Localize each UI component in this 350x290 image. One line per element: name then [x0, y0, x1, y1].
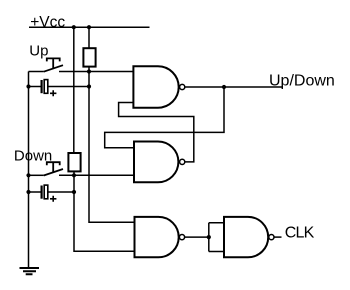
pushbutton S2 (Down) actuator — [47, 162, 60, 172]
wire feedback U1B output to U1A input B — [119, 103, 194, 162]
junction dot: rail to R2 branch — [72, 25, 76, 29]
svg-text:Up: Up — [29, 43, 48, 60]
NAND gate U1B body — [134, 142, 178, 183]
label CLK — [285, 224, 315, 241]
capacitor C2 right lead to Down node — [48, 191, 74, 193]
capacitor C2 left lead — [29, 191, 41, 193]
wire R1 bottom down through Up node, continues to lower gate input corner — [89, 67, 135, 223]
junction dot: C1 left at ground column — [26, 84, 30, 88]
wire Vcc rail down to R2 top — [73, 27, 75, 153]
svg-text:+Vcc: +Vcc — [30, 14, 65, 31]
wire U1C output to U1D inputs — [185, 223, 224, 252]
wire R2 bottom down, continues to lower gate U1C input corner — [74, 171, 135, 251]
capacitor C2 plus sign — [50, 196, 56, 202]
wire U1D output CLK stub — [274, 236, 282, 238]
NAND gate U1D output bubble — [269, 235, 274, 240]
junction dot: Down node at R2 — [72, 173, 76, 177]
capacitor C1 negative plate — [40, 80, 42, 93]
wire Up switch left lead — [29, 71, 44, 73]
wire U1A output to Up/Down — [185, 86, 283, 88]
capacitor C1 right lead to Up node — [48, 86, 89, 88]
NAND gate U1A output bubble — [180, 84, 185, 89]
ground symbol — [20, 268, 40, 274]
resistor R2 — [68, 153, 80, 171]
label Up — [29, 43, 48, 60]
junction dot: C2 right at Down node — [72, 190, 76, 194]
pushbutton S1 (Up) actuator — [47, 58, 60, 68]
pushbutton S2 lever — [44, 169, 63, 176]
junction dot: U1A output feedback tap — [222, 85, 226, 89]
wire Down switch left lead — [29, 174, 44, 176]
capacitor C2 positive plate — [44, 185, 48, 199]
pushbutton S1 lever — [44, 65, 63, 72]
NAND gate U1C output bubble — [179, 235, 184, 240]
svg-text:CLK: CLK — [285, 224, 315, 241]
NAND gate U1C body — [135, 217, 179, 257]
junction dot: rail to R1 branch — [87, 25, 91, 29]
capacitor C1 plus sign — [50, 90, 56, 96]
label +Vcc — [30, 14, 65, 31]
resistor R1 — [83, 48, 95, 66]
wire Down switch right lead to node and gate U1B input B — [59, 174, 134, 176]
wire Vcc rail down to R1 top — [88, 27, 90, 48]
junction dot: C2 left at ground column — [26, 190, 30, 194]
NAND gate U1D body — [224, 217, 268, 257]
NAND gate U1B output bubble — [180, 159, 185, 164]
wire Up switch right lead to node and gate U1A input A — [59, 71, 133, 73]
NAND gate U1A body — [133, 66, 178, 107]
capacitor C1 left lead — [29, 86, 41, 88]
label Up/Down — [269, 73, 335, 90]
junction dot: Down switch at ground column — [26, 173, 30, 177]
junction dot: U1D input tie — [207, 235, 211, 239]
capacitor C1 positive plate — [44, 80, 48, 94]
junction dot: C1 right at Up node — [87, 84, 91, 88]
wire +Vcc top rail — [29, 26, 150, 28]
capacitor C2 negative plate — [40, 186, 42, 199]
wire feedback U1A output to U1B input A — [105, 87, 224, 148]
wire left column (switch commons to ground) — [28, 72, 30, 269]
junction dot: Up node at R1 — [87, 69, 91, 73]
label Down — [14, 148, 52, 165]
svg-text:Up/Down: Up/Down — [269, 73, 335, 90]
